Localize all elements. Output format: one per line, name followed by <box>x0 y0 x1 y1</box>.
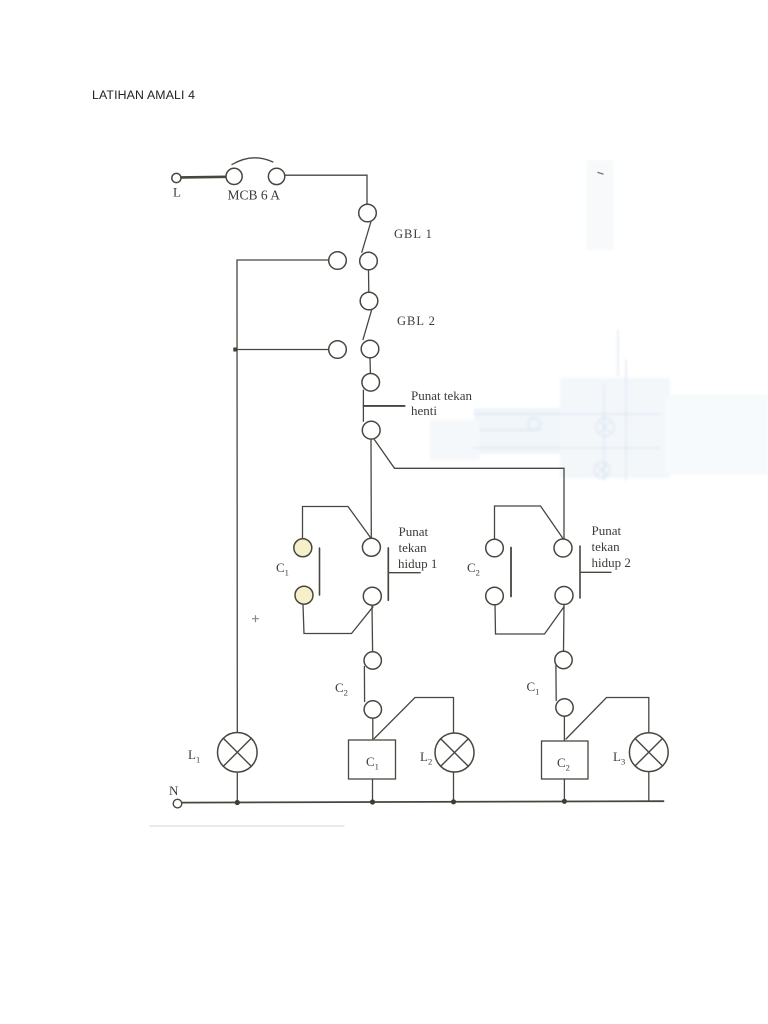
wire GBL2 to stop button <box>369 358 371 373</box>
switch GBL2 top contact <box>360 292 378 310</box>
stop button actuator line <box>364 405 405 407</box>
wire C2 aux bottom link <box>495 605 564 634</box>
plus mark stray <box>253 616 259 622</box>
switch GBL1 blade <box>362 222 371 253</box>
branch2 contact circle <box>329 341 347 359</box>
wire coil C1 to N <box>372 779 374 802</box>
wire branch2 horizontal <box>235 349 329 351</box>
contact C1 aux bar <box>319 548 321 595</box>
svg-text:L: L <box>173 185 181 200</box>
wire C2 aux top link <box>495 506 564 539</box>
MCB arc <box>232 158 273 165</box>
lamp L2 <box>435 733 474 772</box>
stop button bottom contact <box>362 421 380 439</box>
wire branch1 horizontal <box>237 260 329 285</box>
svg-text:L2: L2 <box>420 749 432 767</box>
junction dot C1coil-N <box>370 799 375 804</box>
switch GBL2 bottom contact <box>361 340 379 358</box>
MCB pole circle 1 <box>226 168 242 184</box>
svg-text:C2: C2 <box>467 560 480 578</box>
svg-text:N: N <box>169 783 179 798</box>
neutral line N <box>182 801 664 802</box>
svg-text:C2: C2 <box>335 680 348 698</box>
start button 1 actuator bar <box>387 548 389 600</box>
wire GBL1 to GBL2 <box>368 270 370 292</box>
start button 2 actuator bar <box>579 546 581 598</box>
stop button top contact <box>362 374 380 392</box>
junction dot left rail <box>233 348 237 352</box>
svg-text:hidup 2: hidup 2 <box>592 555 631 570</box>
contact C2 aux top <box>486 539 504 557</box>
svg-text:hidup 1: hidup 1 <box>398 556 437 571</box>
terminal L <box>172 173 181 182</box>
stray dash mark top right <box>598 173 603 175</box>
wire branch to lamp L2 <box>374 698 453 739</box>
start button 1 top contact <box>362 538 380 556</box>
contact C2 aux bottom <box>486 587 504 605</box>
svg-text:Punat: Punat <box>592 523 622 538</box>
switch GBL1 bottom contact <box>360 252 378 270</box>
wire C1 aux bottom link <box>303 605 373 634</box>
faint smudge below N line <box>150 825 344 827</box>
contact C2 blade <box>363 667 365 702</box>
coil C2 box <box>542 741 589 779</box>
contact C1 blade <box>555 666 557 701</box>
wire lamp L1 to N <box>236 772 238 803</box>
wire branch to lamp L3 <box>566 698 649 740</box>
svg-text:tekan: tekan <box>592 539 621 554</box>
svg-text:Punat tekan: Punat tekan <box>411 388 473 403</box>
switch GBL1 top contact <box>359 204 377 222</box>
contact C1 bottom <box>556 699 573 716</box>
start button 1 actuator line <box>388 572 420 574</box>
lamp L1 <box>218 733 258 773</box>
svg-text:L1: L1 <box>188 747 200 765</box>
svg-text:GBL 2: GBL 2 <box>397 314 436 328</box>
wire lamp L3 to N <box>648 772 650 801</box>
terminal N <box>173 799 182 808</box>
svg-text:MCB 6 A: MCB 6 A <box>228 188 281 203</box>
wire L to MCB (thick) <box>182 176 227 179</box>
svg-text:GBL 1: GBL 1 <box>394 227 433 241</box>
start button 2 bottom contact <box>555 587 573 605</box>
contact C2 aux bar <box>510 548 512 597</box>
wire coil C2 to N <box>563 779 565 801</box>
svg-text:C1: C1 <box>276 560 289 578</box>
wire start2 to contact C1 <box>563 605 566 652</box>
junction dot C2coil-N <box>562 799 567 804</box>
MCB pole circle 2 <box>268 168 284 184</box>
contact C2 bottom <box>364 701 381 718</box>
junction dot L2-N <box>451 799 456 804</box>
start button 1 bottom contact <box>363 587 381 605</box>
wire stop to start1 <box>370 440 372 539</box>
junction dot L1-N <box>235 800 240 805</box>
svg-text:henti: henti <box>411 403 437 418</box>
stop button blade <box>362 390 364 421</box>
svg-text:C1: C1 <box>527 679 540 697</box>
wire MCB to GBL1 <box>285 175 367 204</box>
start button 2 actuator line <box>580 571 611 573</box>
switch GBL2 blade <box>363 309 372 339</box>
svg-text:tekan: tekan <box>399 540 428 555</box>
wire stop to start2 feed <box>375 440 565 539</box>
branch1 contact circle <box>329 252 347 270</box>
contact C2 top <box>364 652 381 669</box>
contact C1 aux top (lamp-coloured) <box>294 539 312 557</box>
start button 2 top contact <box>554 539 572 557</box>
contact C1 top <box>555 651 572 668</box>
lamp L3 <box>629 733 668 772</box>
coil C1 box <box>349 740 396 779</box>
wire C1 aux top link <box>303 507 372 539</box>
wire contact C2 to coil C1 <box>372 718 374 740</box>
wire start1 to contact C2 <box>371 606 374 652</box>
wire contact C1 to coil C2 <box>563 716 565 741</box>
contact C1 aux bottom (lamp-coloured) <box>295 586 313 604</box>
wire lamp L2 to N <box>453 772 455 802</box>
svg-text:L3: L3 <box>613 749 625 767</box>
left rail vertical wire <box>236 285 238 732</box>
svg-text:Punat: Punat <box>399 524 429 539</box>
